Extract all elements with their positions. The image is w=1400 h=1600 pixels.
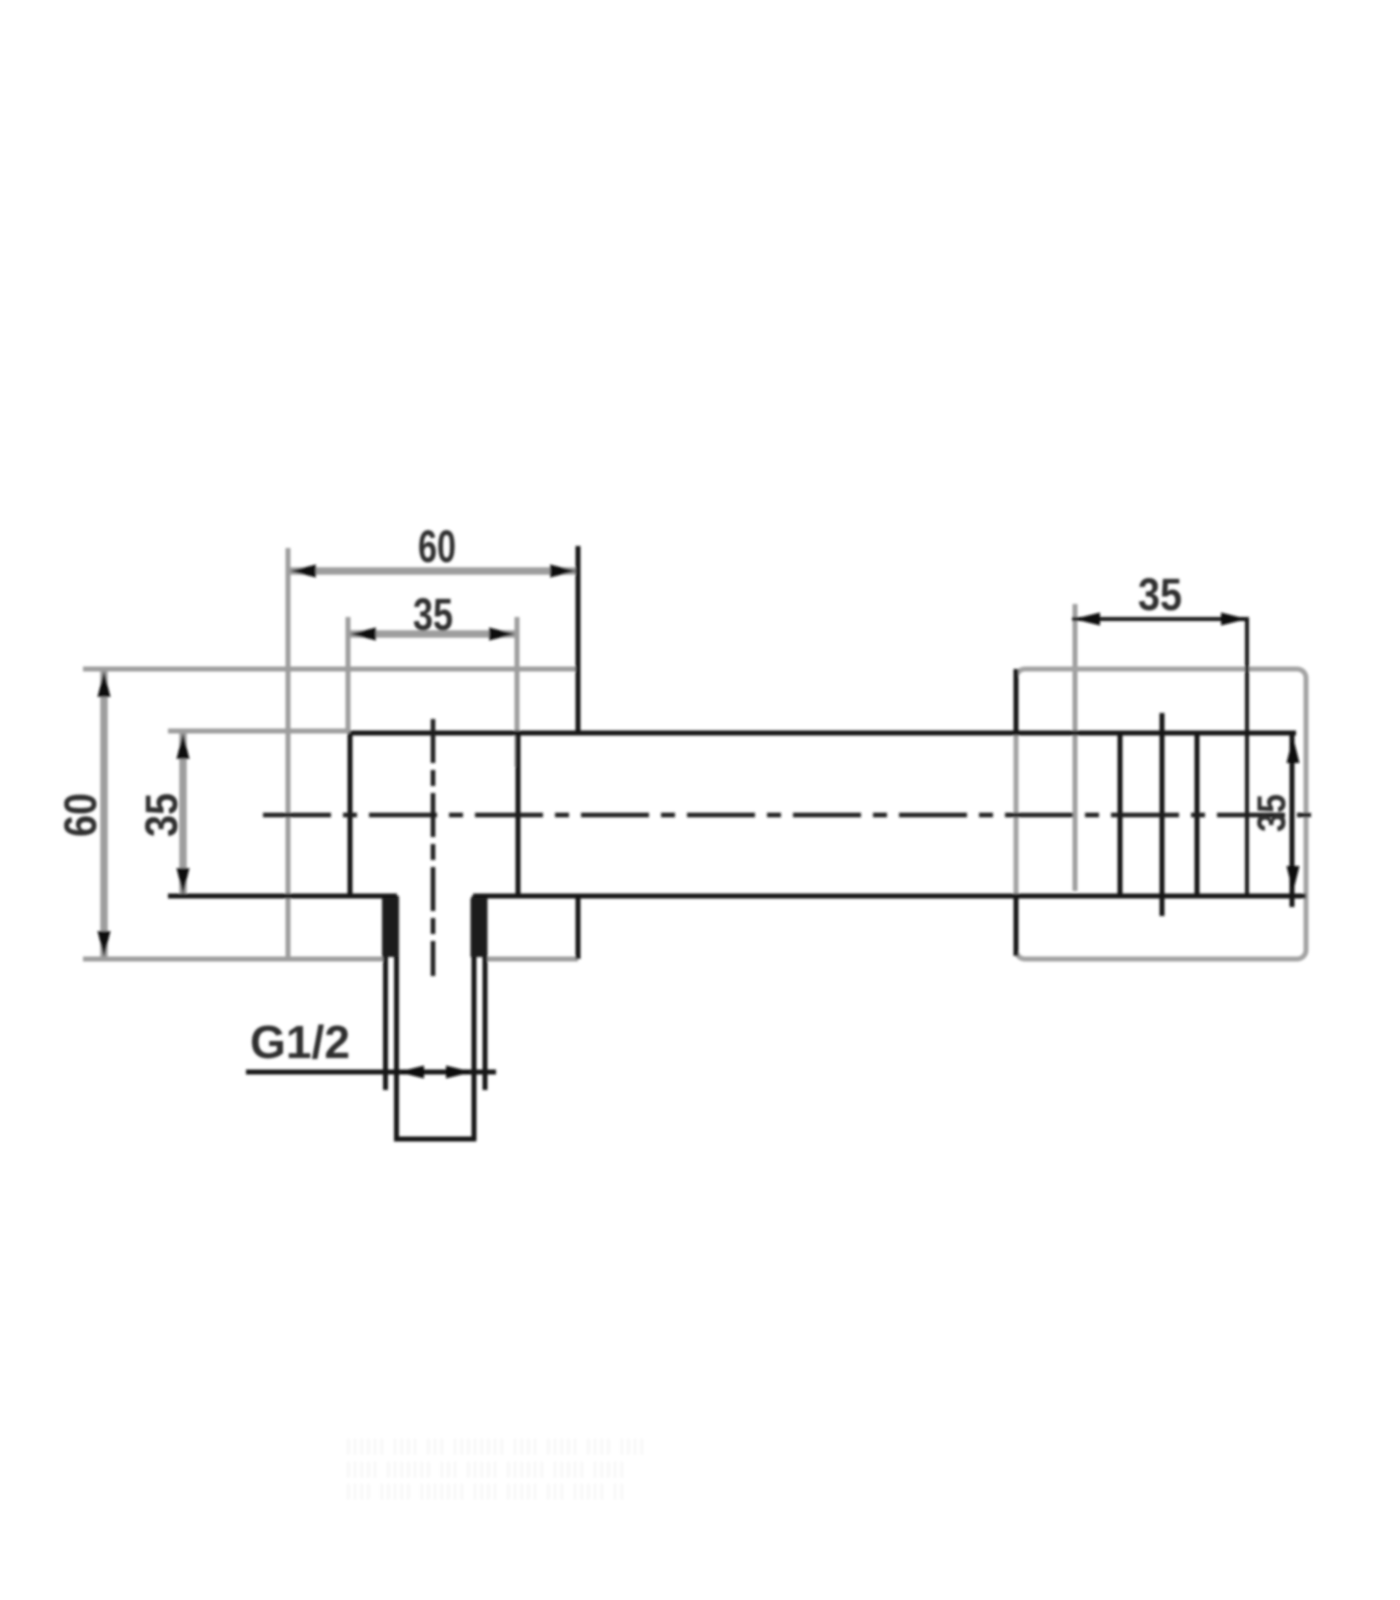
- svg-text:60: 60: [418, 521, 456, 572]
- svg-text:35: 35: [413, 589, 453, 640]
- svg-text:35: 35: [1250, 794, 1294, 832]
- svg-text:G1/2: G1/2: [250, 1016, 350, 1068]
- svg-text:IIII IIIII IIIIIII IIII IIIII: IIII IIIII IIIIIII IIII IIIII III IIIII …: [345, 1479, 625, 1506]
- svg-text:35: 35: [136, 793, 187, 837]
- svg-text:60: 60: [55, 793, 106, 837]
- svg-text:35: 35: [1138, 569, 1182, 620]
